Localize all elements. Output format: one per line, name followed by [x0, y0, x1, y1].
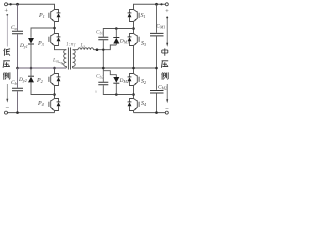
svg-text:S4: S4: [141, 101, 146, 107]
svg-text:+: +: [4, 8, 8, 15]
svg-text:S2: S2: [141, 79, 146, 85]
svg-text:CM2: CM2: [158, 85, 167, 91]
svg-text:S1: S1: [141, 13, 146, 19]
svg-text:P3: P3: [37, 41, 44, 47]
svg-text:Dy2: Dy2: [18, 77, 27, 83]
svg-text:Ls: Ls: [80, 43, 86, 49]
svg-text:CM1: CM1: [156, 24, 165, 30]
svg-text:Dy1: Dy1: [19, 43, 28, 49]
svg-text:Cb: Cb: [11, 80, 17, 86]
svg-text:1:nT: 1:nT: [66, 42, 76, 48]
svg-text:P1: P1: [38, 13, 45, 19]
svg-text:P2: P2: [36, 78, 43, 84]
svg-text:u: u: [95, 89, 98, 94]
svg-text:Ca: Ca: [11, 25, 17, 31]
svg-text:Cb2: Cb2: [96, 74, 104, 80]
svg-text:Cb1: Cb1: [96, 30, 104, 36]
svg-text:DM1: DM1: [119, 39, 129, 45]
svg-text:−: −: [5, 104, 9, 111]
svg-text:+: +: [165, 8, 169, 15]
svg-text:S3: S3: [141, 41, 146, 47]
svg-text:P4: P4: [37, 101, 44, 107]
svg-text:−: −: [165, 105, 169, 112]
svg-text:Lm: Lm: [52, 58, 59, 64]
svg-text:DM2: DM2: [119, 78, 129, 84]
